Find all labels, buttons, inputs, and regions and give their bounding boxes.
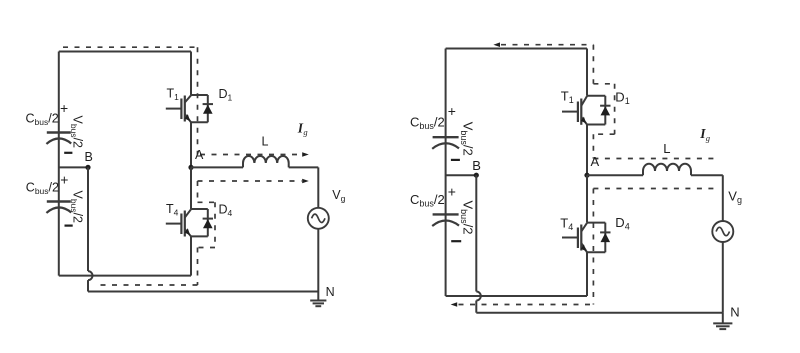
arrow of dashed bottom path (right) <box>451 302 458 307</box>
svg-text:B: B <box>472 158 481 173</box>
dashed current path row below L (right) <box>593 188 714 190</box>
transistor T1 loop top (right) <box>587 95 605 97</box>
transistor T1 gate lead (right) <box>562 111 578 113</box>
transistor T4 loop bottom <box>191 235 208 237</box>
ground bar 1 <box>310 300 326 302</box>
capacitor C_bus/2 upper curved plate (right) <box>432 143 459 149</box>
svg-text:N: N <box>730 304 739 319</box>
wire Vg top lead <box>317 167 319 207</box>
wire node A to T4 collector <box>190 167 192 209</box>
transistor T4 gate bar <box>180 214 182 235</box>
wire bottom rail <box>59 275 191 277</box>
diode D1 cathode bar (right) <box>600 105 610 107</box>
dashed current path row below L <box>198 180 302 182</box>
dashed current path row above L (right) <box>593 158 716 160</box>
dashed path down to bottom <box>197 248 199 286</box>
dashed current path row above L <box>200 154 301 156</box>
node A junction dot <box>188 165 193 170</box>
wire B down to bottom return (right) <box>475 301 477 313</box>
dashed path down through T1 <box>197 47 199 154</box>
dashed path bottom (right circuit) <box>459 304 594 306</box>
wire T4 emitter to bottom rail <box>190 236 192 275</box>
wire Vg bottom lead <box>317 229 319 292</box>
wire inductor to Vg (right) <box>691 174 723 176</box>
node B junction dot (right) <box>474 173 479 178</box>
wire node A to inductor (right) <box>587 174 643 176</box>
transistor T4 gate lead (right) <box>562 237 578 239</box>
ground bar 3 <box>315 305 321 307</box>
transistor T4 gate bar (right) <box>577 228 579 249</box>
wire B vertical down (right) <box>475 175 477 291</box>
svg-text:A: A <box>195 148 204 162</box>
inductor L (right) <box>643 164 691 175</box>
dashed path down from row2 <box>197 181 199 202</box>
label minus upper cap <box>64 152 72 154</box>
wire node A to T4 collector (right) <box>586 175 588 222</box>
transistor T1 body bar <box>184 96 186 122</box>
dashed path down to row1 (right) <box>592 134 594 158</box>
svg-text:+: + <box>60 100 68 116</box>
dashed jog right side around D1 (right) <box>614 84 616 134</box>
wire top rail (right circuit) <box>446 48 587 50</box>
transistor T1 diode branch vertical (right) <box>604 96 606 125</box>
transistor T4 emitter arrow (right) <box>581 244 586 251</box>
transistor T1 gate bar <box>180 99 182 120</box>
transistor T4 loop bottom (right) <box>587 251 605 253</box>
wire T1 emitter to node A <box>190 122 192 167</box>
capacitor C_bus/2 lower plate <box>47 200 71 202</box>
arrow of dashed top path (right) <box>493 42 500 47</box>
dashed jog top around D4 <box>198 201 216 203</box>
svg-text:g: g <box>303 127 307 137</box>
transistor T4 loop top (right) <box>587 222 605 224</box>
dashed path top (right circuit) <box>501 44 593 46</box>
ground bar 3 (right) <box>719 328 726 330</box>
wire Vg top lead (right) <box>722 175 724 221</box>
source Vg sine (right) <box>716 227 729 235</box>
dashed path down through T4 (right) <box>592 189 594 305</box>
svg-text:L: L <box>262 135 269 149</box>
wire node B stub <box>59 166 88 168</box>
wire node A to inductor <box>191 166 243 168</box>
wire top rail <box>59 51 191 53</box>
ground bar 1 (right) <box>713 322 732 324</box>
ground stub N <box>317 292 319 301</box>
diode D4 cathode bar <box>203 218 213 220</box>
wire bottom rail (right circuit) <box>446 295 587 297</box>
transistor T4 emitter slant (right) <box>581 243 587 252</box>
wire bottom return to ground (right) <box>476 312 723 314</box>
wire left DC bus (right circuit) <box>445 49 447 297</box>
transistor T4 diode branch vertical <box>207 209 209 236</box>
wire hop over bottom rail (right) <box>476 292 481 301</box>
transistor T4 collector slant (right) <box>581 223 587 232</box>
transistor T4 gate lead <box>166 223 182 225</box>
inductor L <box>243 156 289 167</box>
ground bar 2 <box>313 302 324 304</box>
source Vg sine <box>312 214 325 222</box>
label minus lower cap (right) <box>451 240 461 242</box>
ground stub N (right) <box>722 313 724 324</box>
svg-text:+: + <box>448 183 456 199</box>
transistor T1 loop bottom (right) <box>587 124 605 126</box>
dashed jog top around D1 (right) <box>593 83 614 85</box>
svg-text:B: B <box>85 150 93 164</box>
transistor T1 emitter arrow (right) <box>581 117 586 124</box>
wire T1 collector from rail <box>190 52 192 96</box>
wire T1 collector from rail (right) <box>586 49 588 96</box>
svg-text:L: L <box>663 141 670 156</box>
wire bottom return to ground <box>88 291 318 293</box>
transistor T1 emitter slant (right) <box>581 117 587 125</box>
wire hop over bottom rail <box>88 271 93 280</box>
diode D4 triangle <box>203 219 213 228</box>
transistor T1 gate bar (right) <box>577 102 579 123</box>
ground bar 2 (right) <box>716 325 730 327</box>
diode D1 triangle <box>203 105 213 114</box>
svg-text:+: + <box>448 103 456 119</box>
transistor T4 diode branch vertical (right) <box>604 223 606 253</box>
transistor T1 loop top <box>191 94 208 96</box>
arrow of dashed row above L <box>302 152 309 157</box>
transistor T1 emitter arrow <box>185 114 191 121</box>
wire T1 emitter to node A (right) <box>586 125 588 176</box>
source Vg circle (right) <box>712 221 733 242</box>
transistor T1 body bar (right) <box>580 99 582 125</box>
wire node B stub (right) <box>446 174 477 176</box>
node B junction dot <box>85 165 90 170</box>
wire B down to bottom return <box>87 280 89 291</box>
transistor T1 emitter slant <box>185 114 191 122</box>
capacitor C_bus/2 upper curved plate <box>46 138 71 143</box>
transistor T4 collector slant <box>185 209 191 217</box>
capacitor C_bus/2 lower curved plate <box>46 207 71 212</box>
capacitor C_bus/2 upper plate <box>47 131 71 133</box>
wire inductor to Vg <box>289 166 319 168</box>
wire Vg bottom lead (right) <box>722 242 724 313</box>
transistor T4 body bar <box>184 211 186 237</box>
diode D1 triangle (right) <box>601 106 611 115</box>
transistor T4 loop top <box>191 208 208 210</box>
dashed path bottom (left circuit) <box>95 284 198 286</box>
capacitor C_bus/2 lower plate (right) <box>433 213 459 215</box>
dashed jog bottom around D4 <box>198 247 216 249</box>
label minus lower cap <box>65 225 73 227</box>
transistor T1 gate lead <box>166 108 182 110</box>
source Vg circle <box>308 208 329 229</box>
transistor T1 diode branch vertical <box>207 95 209 122</box>
node A junction dot (right) <box>584 173 589 178</box>
svg-text:N: N <box>326 285 335 299</box>
capacitor C_bus/2 lower curved plate (right) <box>432 220 459 226</box>
transistor T4 emitter slant <box>185 229 191 236</box>
wire B vertical down <box>87 167 89 271</box>
transistor T1 loop bottom <box>191 121 208 123</box>
transistor T4 body bar (right) <box>580 225 582 251</box>
capacitor C_bus/2 upper plate (right) <box>433 136 459 138</box>
wire left DC bus <box>58 52 60 276</box>
transistor T1 collector slant (right) <box>581 96 587 106</box>
diode D4 triangle (right) <box>601 233 611 242</box>
svg-text:+: + <box>60 172 68 188</box>
wire T4 emitter to bottom rail (right) <box>586 252 588 296</box>
dashed path top (left circuit) <box>63 46 198 48</box>
svg-text:A: A <box>591 154 600 169</box>
arrow of dashed row below L <box>302 179 309 184</box>
label minus upper cap (right) <box>451 159 460 161</box>
svg-text:g: g <box>706 133 710 143</box>
transistor T4 emitter arrow <box>185 228 191 235</box>
diode D4 cathode bar (right) <box>600 231 610 233</box>
dashed path down to D1 box (right) <box>592 45 594 84</box>
transistor T1 collector slant <box>185 95 191 102</box>
dashed jog bottom around D1 (right) <box>593 133 614 135</box>
dashed jog right side around D4 <box>214 202 216 247</box>
diode D1 cathode bar <box>203 103 213 105</box>
